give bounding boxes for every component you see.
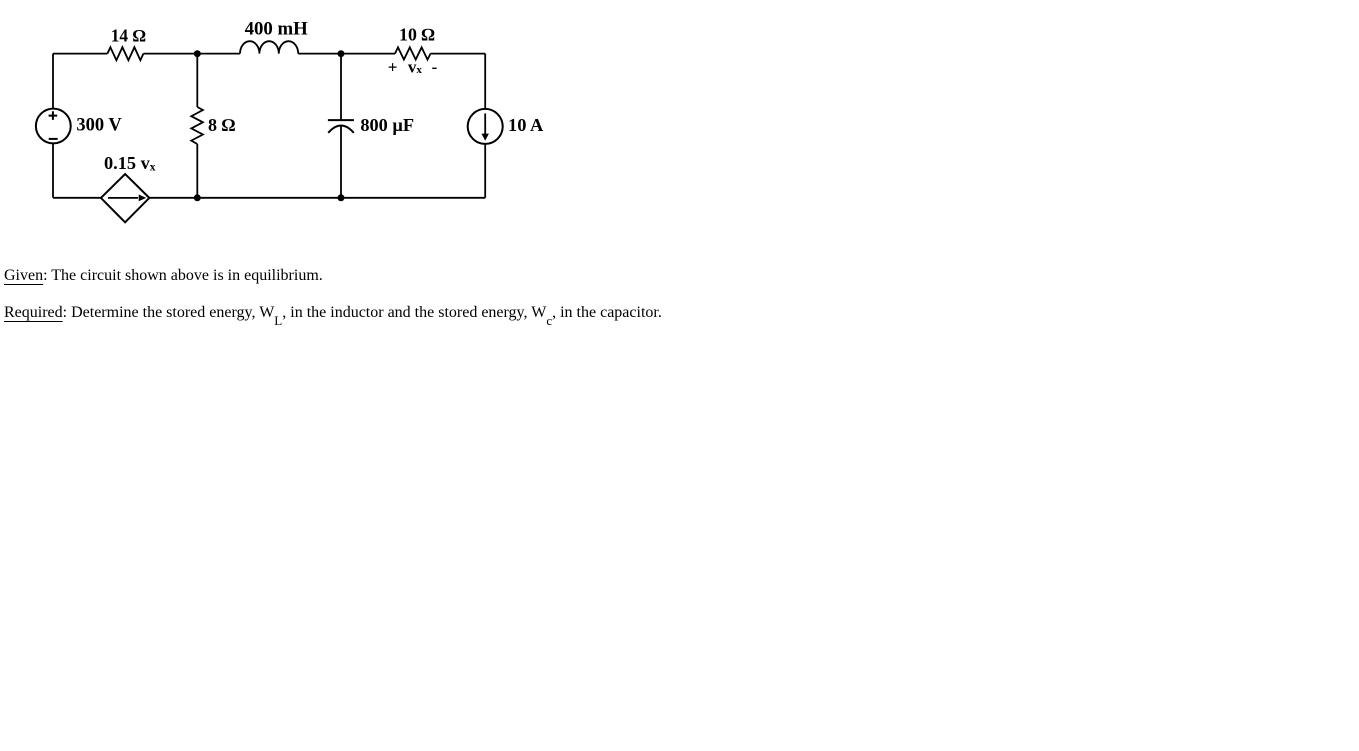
voltage source plus sign [49,111,58,120]
svg-text:800 µF: 800 µF [360,115,414,135]
wire: right rail [484,54,486,198]
dependent source arrow [108,197,138,199]
current source arrow [484,113,486,134]
dependent source D1 diamond [101,174,149,222]
svg-text:8 Ω: 8 Ω [208,115,236,135]
wire: top rail between inductor and R3 [298,53,395,55]
wire: node A to R2 and R2 to node C [196,54,198,198]
current source I1 circle [468,109,503,144]
wire: capacitor bottom plate down to node D [340,126,342,198]
svg-text:300 V: 300 V [76,116,122,136]
resistor R3 10 ohm [395,47,431,59]
node B junction dot [338,50,345,57]
voltage source V1 circle [36,109,71,144]
wire: top rail right segment [431,53,486,55]
wire: left rail [52,54,54,198]
inductor L1 400 mH [240,41,298,53]
node C junction dot [194,194,201,201]
capacitor C1 bottom curved plate [328,126,354,133]
circuit schematic [0,0,570,245]
svg-text:+: + [388,57,398,76]
svg-text:10 A: 10 A [508,115,544,135]
wire: top rail left segment [53,53,107,55]
voltage source minus sign [49,138,58,140]
capacitor C1 top plate [328,119,354,121]
svg-text:10 Ω: 10 Ω [399,25,435,45]
svg-text:vx: vx [408,57,423,76]
node D junction dot [338,194,345,201]
svg-text:-: - [432,57,438,76]
paragraph Given [4,267,323,285]
wire: top rail between R1 and inductor [143,53,240,55]
paragraph Required [4,304,662,329]
svg-text:0.15 vx: 0.15 vx [104,153,156,174]
resistor R2 8 ohm vertical [191,107,203,144]
resistor R1 14 ohm [107,47,143,60]
svg-text:14 Ω: 14 Ω [111,25,146,45]
svg-text:400 mH: 400 mH [245,19,309,40]
wire: node B down to capacitor top plate [340,54,342,121]
node A junction dot [194,50,201,57]
wire: bottom rail [53,197,485,199]
